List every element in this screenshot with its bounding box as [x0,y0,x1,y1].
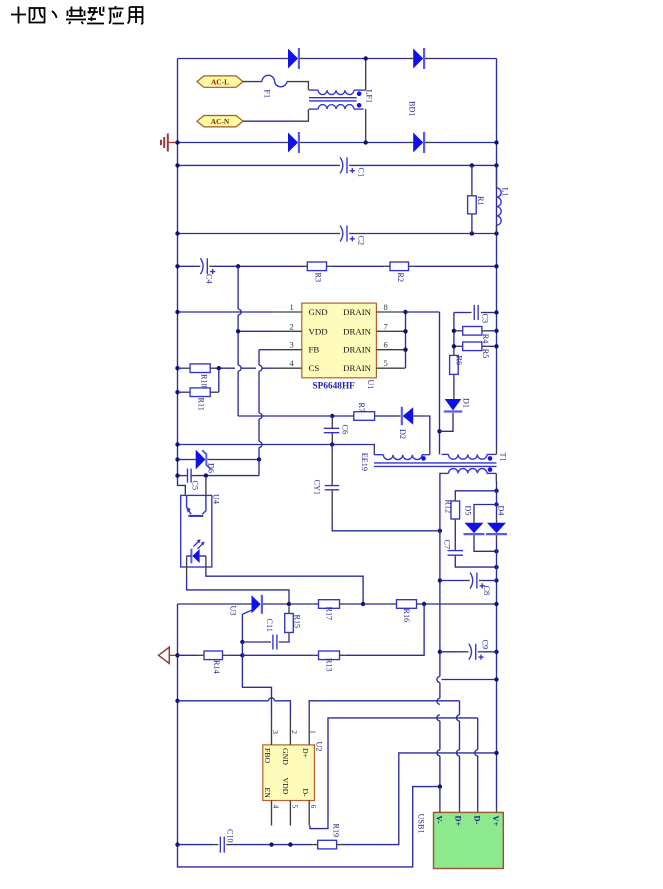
resistor R4 [454,330,463,332]
wire U2 D+ route [309,701,459,717]
pin 3 FB of U1 [274,349,302,351]
svg-text:SP6648HF: SP6648HF [313,382,356,392]
svg-text:D+: D+ [301,748,310,759]
svg-text:V-: V- [435,816,444,824]
wire U2 GND to rail [175,699,179,703]
svg-text:U1: U1 [366,380,375,390]
wire V+ stub line [442,679,497,681]
svg-text:2: 2 [290,321,294,331]
resistor R1 [471,165,473,190]
capacitor CY1 [331,445,333,453]
svg-text:C9: C9 [481,640,490,650]
wire ref node to R13 line [241,642,243,655]
connector USB1 body [434,812,504,868]
pin 1 GND of U1 [274,311,302,313]
svg-text:C5: C5 [191,481,200,491]
diode D4 [487,523,506,533]
resistor R19 [312,844,317,846]
resistor R14 [178,654,199,656]
diode D5 [465,523,484,533]
wire U4 LED anode to R17/R16 node [205,556,207,571]
svg-text:C11: C11 [265,619,274,632]
svg-text:C6: C6 [340,425,349,435]
svg-text:DRAIN: DRAIN [343,345,372,355]
transformer T1 aux winding [374,454,383,456]
svg-text:FBO: FBO [263,748,272,764]
resistor R16 [363,603,391,605]
svg-text:C3: C3 [481,314,490,324]
inductor LF1 common-mode choke [309,89,318,91]
resistor R13 [242,654,313,656]
transformer T1 secondary winding [442,472,449,474]
pin 1 of U2 top [308,717,310,745]
wire F1 to LF1 [287,82,308,91]
controller U2 body [263,745,315,801]
wire lower-left rail [178,604,440,867]
ground earth symbol [161,134,178,152]
svg-text:R17: R17 [325,607,334,621]
svg-text:DRAIN: DRAIN [343,363,372,373]
wire C2 line [178,233,337,235]
diode D2 [403,407,414,425]
wire C10 line [175,842,179,846]
svg-text:8: 8 [384,302,388,312]
wire U4 LED cathode to U3 node [186,556,188,578]
capacitor C4 [200,258,203,274]
capacitor C3 [474,305,478,320]
svg-text:R7: R7 [357,403,366,413]
svg-text:T1: T1 [499,453,508,462]
wire LF1 top to rail [364,89,366,91]
svg-text:D+: D+ [453,816,462,827]
diode BD1 top-right [413,49,423,69]
svg-text:EE19: EE19 [360,453,369,471]
svg-text:AC-L: AC-L [211,78,229,87]
wire C4-R3-R2 line [178,265,198,267]
svg-text:1: 1 [309,730,318,734]
svg-text:7: 7 [384,321,388,331]
pin 8 DRAIN of U1 [376,311,405,313]
wire secondary right to V+ rail [495,473,497,481]
capacitor C6 [331,416,333,419]
resistor R3 [307,262,326,271]
U4 LED emitter arrows [194,540,205,549]
diode D1 [445,399,462,411]
svg-text:D5: D5 [464,506,473,516]
svg-text:CS: CS [309,363,320,373]
svg-text:CY1: CY1 [313,480,322,495]
svg-text:R5: R5 [481,349,490,359]
svg-text:3: 3 [290,340,294,350]
capacitor C7 [448,551,464,556]
wire C1 line [178,164,337,166]
svg-text:5: 5 [384,358,388,368]
svg-text:VDD: VDD [309,326,328,336]
resistor R11 [175,390,179,394]
capacitor C2 [340,226,343,242]
wire R12 snubber branch [494,489,498,493]
wire AC-N to LF1 [243,120,300,122]
svg-text:D6: D6 [207,463,216,473]
resistor R10 [175,366,179,370]
wire U4 collector to C5/FB node [205,481,207,496]
svg-text:C7: C7 [443,540,452,550]
resistor R7 [354,412,375,421]
wire LF1 bottom to rail [365,109,367,142]
U4 phototransistor [187,495,206,516]
svg-text:D1: D1 [462,398,471,408]
svg-text:LF1: LF1 [365,90,374,104]
wire U2 FBO route [242,655,271,716]
svg-text:D4: D4 [497,506,506,516]
diode BD1 top-left [288,49,298,69]
wire C3 line [454,312,467,314]
svg-text:DRAIN: DRAIN [343,307,372,317]
svg-text:C8: C8 [482,586,491,596]
resistor R12 [451,501,460,519]
fuse F1 [243,81,262,83]
pin 7 DRAIN of U1 [376,330,405,332]
svg-text:F1: F1 [263,90,272,99]
svg-text:D-: D- [472,816,481,825]
resistor R15 [288,607,290,614]
svg-text:D-: D- [301,789,310,798]
port AC-N [197,116,243,127]
wire U3 line [178,603,247,605]
wire U2 D- route [310,718,478,829]
svg-text:D2: D2 [398,429,407,439]
svg-text:R14: R14 [212,660,221,674]
resistor R5 [454,345,463,347]
svg-text:6: 6 [309,805,318,809]
capacitor C8 [438,578,442,582]
pin 2 VDD of U1 [274,330,302,332]
wire USB V- pin [439,787,441,807]
svg-text:FB: FB [309,345,320,355]
capacitor C9 [438,650,442,654]
svg-text:6: 6 [384,340,388,350]
svg-text:EN: EN [263,788,272,799]
svg-text:R19: R19 [332,824,341,838]
svg-text:U3: U3 [229,606,238,616]
svg-text:R3: R3 [314,273,323,283]
svg-text:C4: C4 [205,274,214,284]
wire VDD to R7 line [238,415,332,417]
capacitor C11 [279,641,282,643]
title 十四、典型应用 [11,6,143,24]
resistor R6 [450,355,459,374]
svg-text:GND: GND [309,307,328,317]
wire V- line [439,531,441,581]
wire top rail [178,58,284,60]
diode BD1 bottom-left [288,133,298,153]
capacitor C1 [340,157,343,173]
svg-text:V+: V+ [491,816,500,827]
wire V+ rail lower [496,567,498,580]
inductor L1 [496,165,498,183]
wire DRAIN node vertical [405,312,407,368]
svg-text:R13: R13 [325,658,334,672]
port AC-L [197,76,243,87]
wire R19 to V+ line [342,753,497,845]
zener D6 [175,457,179,461]
svg-text:R10: R10 [200,374,209,388]
op-amp U1 SP6648HF body [302,303,377,378]
pin 5 of U2 bottom [289,801,291,826]
wire D5 branch [494,502,498,506]
svg-text:C2: C2 [357,236,366,246]
port output arrow [159,647,170,663]
svg-text:C10: C10 [226,829,235,843]
pin 5 DRAIN of U1 [376,367,405,369]
pin 4 of U2 bottom [271,801,273,826]
svg-text:R6: R6 [455,356,464,366]
svg-text:3: 3 [271,730,280,734]
wire U1 pin3 FB net [259,349,274,351]
wire U3 ref to divider [241,614,243,642]
pin 2 of U2 top [289,717,291,745]
diode BD1 bottom-right [413,133,423,153]
svg-text:BD1: BD1 [408,101,417,116]
svg-text:5: 5 [290,805,299,809]
wire left rail [178,59,186,491]
resistor R17 [289,603,313,605]
pin 4 CS of U1 [274,367,302,369]
wire primary ground line [178,444,333,446]
svg-text:U2: U2 [315,742,324,752]
resistor R2 [390,262,409,271]
wire VDD net from C4 junction [237,266,239,309]
wire right rail [496,59,498,446]
svg-text:R11: R11 [197,398,206,411]
wire clamp left vertical [453,313,455,331]
capacitor C5 [175,473,179,477]
svg-text:R16: R16 [402,609,411,623]
svg-text:R15: R15 [293,615,302,629]
pin 6 DRAIN of U1 [376,349,405,351]
capacitor C10 [220,837,224,853]
wire V+ rail upper [496,491,498,518]
optocoupler U4 body [181,495,212,567]
svg-text:2: 2 [290,730,299,734]
svg-text:DRAIN: DRAIN [343,326,372,336]
svg-text:4: 4 [272,805,281,809]
svg-text:1: 1 [290,302,294,312]
svg-text:R1: R1 [476,196,485,206]
svg-text:VDD: VDD [281,778,290,795]
svg-text:R2: R2 [396,273,405,283]
pin 6 of U2 bottom [308,801,310,826]
svg-text:USB1: USB1 [417,814,426,834]
pin 3 of U2 top [271,717,273,745]
U4 LED [192,549,199,563]
svg-text:C1: C1 [357,168,366,178]
wire secondary left to V- line [440,473,442,530]
wire U1 pin1 GND to left rail [178,311,274,313]
svg-text:R12: R12 [444,500,453,514]
shunt regulator U3 TL431 [252,595,261,613]
svg-text:GND: GND [281,748,290,765]
svg-text:AC-N: AC-N [211,117,230,126]
svg-text:U4: U4 [212,494,221,504]
svg-text:L1: L1 [501,188,510,197]
transformer T1 core [374,462,497,464]
wire U1 pin4 CS to R10/R11 [219,367,235,369]
transformer T1 primary winding [442,453,449,455]
wire bridge lower rail [178,142,284,144]
